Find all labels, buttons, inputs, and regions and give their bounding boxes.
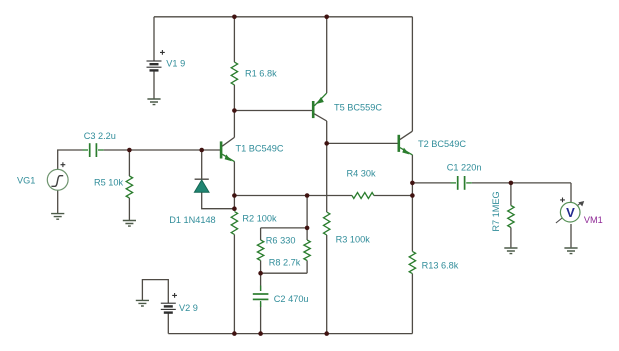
battery V1	[147, 50, 186, 70]
ground for VG1	[51, 214, 64, 220]
wire V2 top elbow	[142, 280, 168, 304]
wire box bottom	[261, 272, 308, 274]
diode D1 1N4148	[169, 179, 215, 225]
wire R3 top lead	[326, 143, 328, 212]
wire R3 bottom lead	[326, 235, 328, 334]
capacitor C2 470u	[253, 286, 309, 308]
ground for V1	[147, 99, 160, 105]
transistor T1 BC549C	[221, 137, 284, 161]
capacitor C3 2.2u	[83, 131, 116, 157]
junction base wire / R5	[127, 148, 132, 153]
svg-text:R13 6.8k: R13 6.8k	[422, 261, 459, 271]
svg-text:T2 BC549C: T2 BC549C	[418, 139, 466, 149]
wire box top	[261, 227, 308, 229]
wire VM1 drop	[570, 183, 572, 204]
junction top rail / T5	[324, 14, 329, 19]
junction top rail / R1	[232, 14, 237, 19]
resistor R3 100k	[324, 212, 371, 245]
wire R8 top lead	[306, 228, 308, 240]
svg-text:R1 6.8k: R1 6.8k	[245, 69, 277, 79]
wire VM1 to ground	[570, 224, 572, 247]
svg-text:V1 9: V1 9	[166, 58, 185, 68]
junction box bottom left	[258, 271, 263, 276]
svg-text:R5 10k: R5 10k	[94, 178, 124, 188]
wire T2 emitter to C1	[412, 182, 450, 184]
junction bottom rail / C2	[258, 331, 263, 336]
wire top supply rail	[154, 16, 412, 18]
wire R4 to T2 emitter node	[374, 195, 413, 197]
svg-text:V: V	[566, 205, 575, 220]
junction bottom rail / R3	[324, 331, 329, 336]
resistor R1 6.8k	[231, 62, 277, 85]
svg-text:V2 9: V2 9	[179, 303, 198, 313]
wire R1 top lead	[233, 17, 235, 62]
wire R2 bottom lead	[233, 235, 235, 334]
wire node A to T5 base	[234, 110, 312, 112]
junction T5 collector node	[324, 141, 329, 146]
voltage generator VG1	[17, 162, 68, 190]
wire C1 to R7 node	[472, 182, 571, 184]
wire box right col drop	[306, 196, 308, 228]
wire R5 bottom lead	[128, 198, 130, 220]
svg-text:C1 220n: C1 220n	[447, 162, 482, 172]
svg-text:R8 2.7k: R8 2.7k	[269, 257, 301, 267]
wire D1 bottom elbow	[202, 192, 235, 208]
transistor T5 BC559C	[313, 93, 382, 121]
wire VG1 top elbow	[58, 150, 83, 169]
wire C3 to T1 base	[104, 149, 221, 151]
junction C1 / R7	[509, 181, 514, 186]
wire R8 bottom lead	[306, 261, 308, 274]
wire R6 top lead	[260, 228, 262, 240]
wire T5 collector drop	[326, 121, 328, 143]
svg-text:R6 330: R6 330	[266, 236, 296, 246]
wire C2 bottom lead	[260, 302, 262, 333]
resistor R5 10k	[94, 176, 133, 198]
ground for VM1	[564, 248, 577, 254]
wire R1 bottom to node A	[233, 85, 235, 111]
junction T2 emitter / C1	[410, 181, 415, 186]
wire C2 top lead	[260, 273, 262, 291]
svg-text:T1 BC549C: T1 BC549C	[236, 144, 284, 154]
wire bottom rail	[168, 333, 412, 335]
svg-text:R4 30k: R4 30k	[347, 169, 377, 179]
wire V1 to top rail	[153, 17, 155, 61]
junction T1 emitter node	[232, 193, 237, 198]
svg-text:R3 100k: R3 100k	[336, 235, 371, 245]
wire emitter node to R2 top	[233, 196, 235, 209]
svg-text:D1 1N4148: D1 1N4148	[169, 215, 215, 225]
resistor R7 1MEG	[491, 191, 514, 231]
svg-text:C3 2.2u: C3 2.2u	[84, 131, 116, 141]
junction node A	[232, 108, 237, 113]
svg-text:VM1: VM1	[584, 215, 603, 225]
wire V2 to bottom rail	[167, 313, 169, 334]
voltmeter VM1	[556, 198, 603, 226]
wire T5 emitter to top rail	[326, 17, 328, 93]
svg-text:R7 1MEG: R7 1MEG	[491, 191, 501, 231]
ground for R5	[123, 221, 136, 227]
wire R13 top lead	[411, 196, 413, 252]
resistor R2 100k	[231, 212, 277, 235]
transistor T2 BC549C	[399, 131, 467, 155]
svg-text:T5 BC559C: T5 BC559C	[334, 102, 382, 112]
ground for R7	[504, 248, 517, 254]
wire R5 top lead	[128, 150, 130, 176]
wire node A to T1 collector	[233, 111, 235, 138]
capacitor C1 220n	[447, 162, 482, 189]
wire V1 to ground	[153, 70, 155, 99]
wire VG1 to ground	[57, 190, 59, 213]
svg-text:VG1: VG1	[17, 175, 35, 185]
junction base wire / D1	[199, 148, 204, 153]
junction box top right	[305, 226, 310, 231]
svg-text:C2 470u: C2 470u	[274, 294, 309, 304]
battery V2	[161, 293, 198, 313]
ground for V2	[136, 300, 149, 306]
resistor R4 30k	[347, 169, 377, 199]
wire T2 emitter drop	[411, 155, 413, 196]
resistor R8 2.7k	[269, 240, 311, 267]
wire R13 bottom lead	[411, 274, 413, 334]
svg-text:R2 100k: R2 100k	[242, 213, 277, 223]
wire T5 node to T2 base	[327, 142, 398, 144]
wire R7 top lead	[510, 183, 512, 206]
wire D1 top lead	[201, 150, 203, 179]
junction bottom rail / R2	[232, 331, 237, 336]
resistor R13 6.8k	[409, 251, 459, 273]
resistor R6 330	[257, 236, 295, 261]
junction R2 top / D1	[232, 206, 237, 211]
junction emitter wire / T2 emitter	[410, 193, 415, 198]
wire T1 emitter to node	[233, 161, 235, 195]
wire R7 bottom lead	[510, 228, 512, 248]
wire R6 bottom lead	[260, 261, 262, 274]
junction emitter wire / R8 col	[305, 193, 310, 198]
wire T2 collector to top rail	[411, 17, 413, 131]
wire emitter rail to R4	[234, 195, 352, 197]
